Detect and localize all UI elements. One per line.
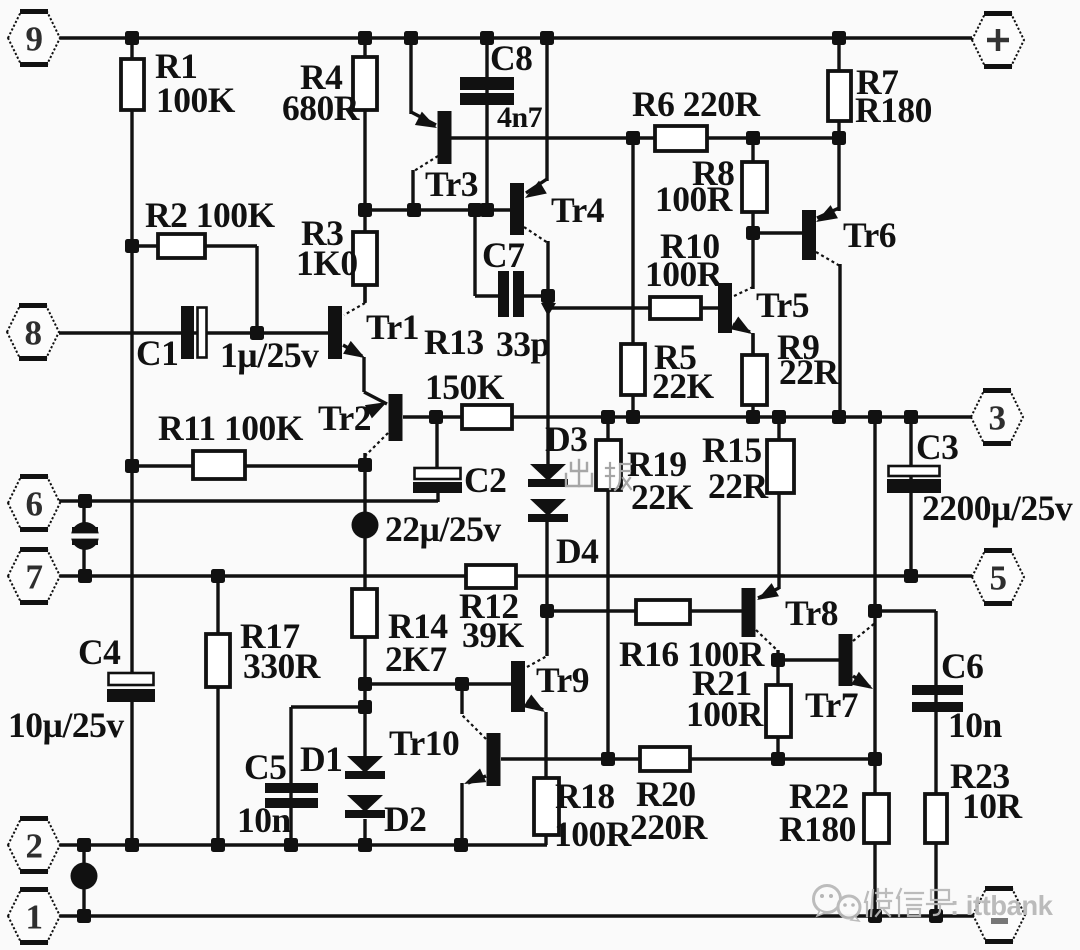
svg-text:D1: D1 [300,739,342,779]
svg-text:C1: C1 [136,333,178,373]
svg-text:2: 2 [26,827,43,866]
svg-text:: ittbank: : ittbank [950,890,1054,921]
svg-text:D4: D4 [556,531,599,571]
svg-text:33p: 33p [496,324,550,364]
svg-text:Tr4: Tr4 [551,190,605,230]
svg-text:6: 6 [26,485,43,524]
svg-text:Tr9: Tr9 [536,660,589,700]
svg-text:R180: R180 [779,809,856,849]
svg-text:39K: 39K [462,615,525,655]
svg-text:22µ/25v: 22µ/25v [385,509,501,549]
svg-text:2K7: 2K7 [385,639,447,679]
svg-text:10R: 10R [962,786,1023,826]
svg-text:2200µ/25v: 2200µ/25v [922,488,1073,528]
svg-text:Tr1: Tr1 [366,307,419,347]
svg-text:R6 220R: R6 220R [632,84,761,124]
svg-text:R11 100K: R11 100K [158,408,304,448]
svg-text:C5: C5 [244,747,286,787]
svg-text:7: 7 [26,558,43,597]
svg-text:C6: C6 [941,646,983,686]
svg-text:C7: C7 [482,235,524,275]
svg-text:1K0: 1K0 [296,243,358,283]
svg-text:100R: 100R [554,814,632,854]
svg-text:Tr8: Tr8 [785,593,838,633]
svg-text:100R: 100R [655,179,733,219]
svg-text:1µ/25v: 1µ/25v [220,335,319,375]
svg-text:8: 8 [25,314,42,353]
svg-text:150K: 150K [425,367,505,407]
svg-text:10µ/25v: 10µ/25v [8,705,124,745]
svg-text:R2 100K: R2 100K [145,195,276,235]
svg-text:D3: D3 [545,419,587,459]
svg-text:9: 9 [26,20,43,59]
svg-text:4n7: 4n7 [497,101,543,134]
svg-text:3: 3 [989,399,1006,438]
svg-text:R15: R15 [702,430,762,470]
svg-text:22R: 22R [708,466,769,506]
svg-text:22K: 22K [652,366,715,406]
svg-text:Tr7: Tr7 [805,685,858,725]
svg-text:R180: R180 [855,90,932,130]
svg-text:C8: C8 [490,38,532,78]
svg-text:1: 1 [26,898,43,937]
svg-text:C3: C3 [916,427,958,467]
svg-text:10n: 10n [948,705,1003,745]
svg-text:Tr3: Tr3 [425,164,478,204]
svg-text:5: 5 [990,559,1007,598]
svg-text:100R: 100R [645,254,723,294]
svg-text:R18: R18 [555,776,615,816]
svg-text:Tr2: Tr2 [318,398,371,438]
svg-text:330R: 330R [243,646,321,686]
svg-text:Tr5: Tr5 [756,285,809,325]
svg-text:100R: 100R [686,694,764,734]
svg-text:100K: 100K [156,80,236,120]
svg-text:22K: 22K [631,477,694,517]
svg-text:R13: R13 [424,322,484,362]
svg-text:Tr10: Tr10 [389,723,459,763]
svg-text:C4: C4 [78,632,121,672]
svg-text:C2: C2 [464,460,506,500]
svg-text:220R: 220R [630,807,708,847]
svg-text:22R: 22R [779,352,840,392]
svg-text:680R: 680R [282,88,360,128]
svg-text:10n: 10n [237,800,292,840]
svg-text:Tr6: Tr6 [843,215,896,255]
svg-text:D2: D2 [384,799,426,839]
